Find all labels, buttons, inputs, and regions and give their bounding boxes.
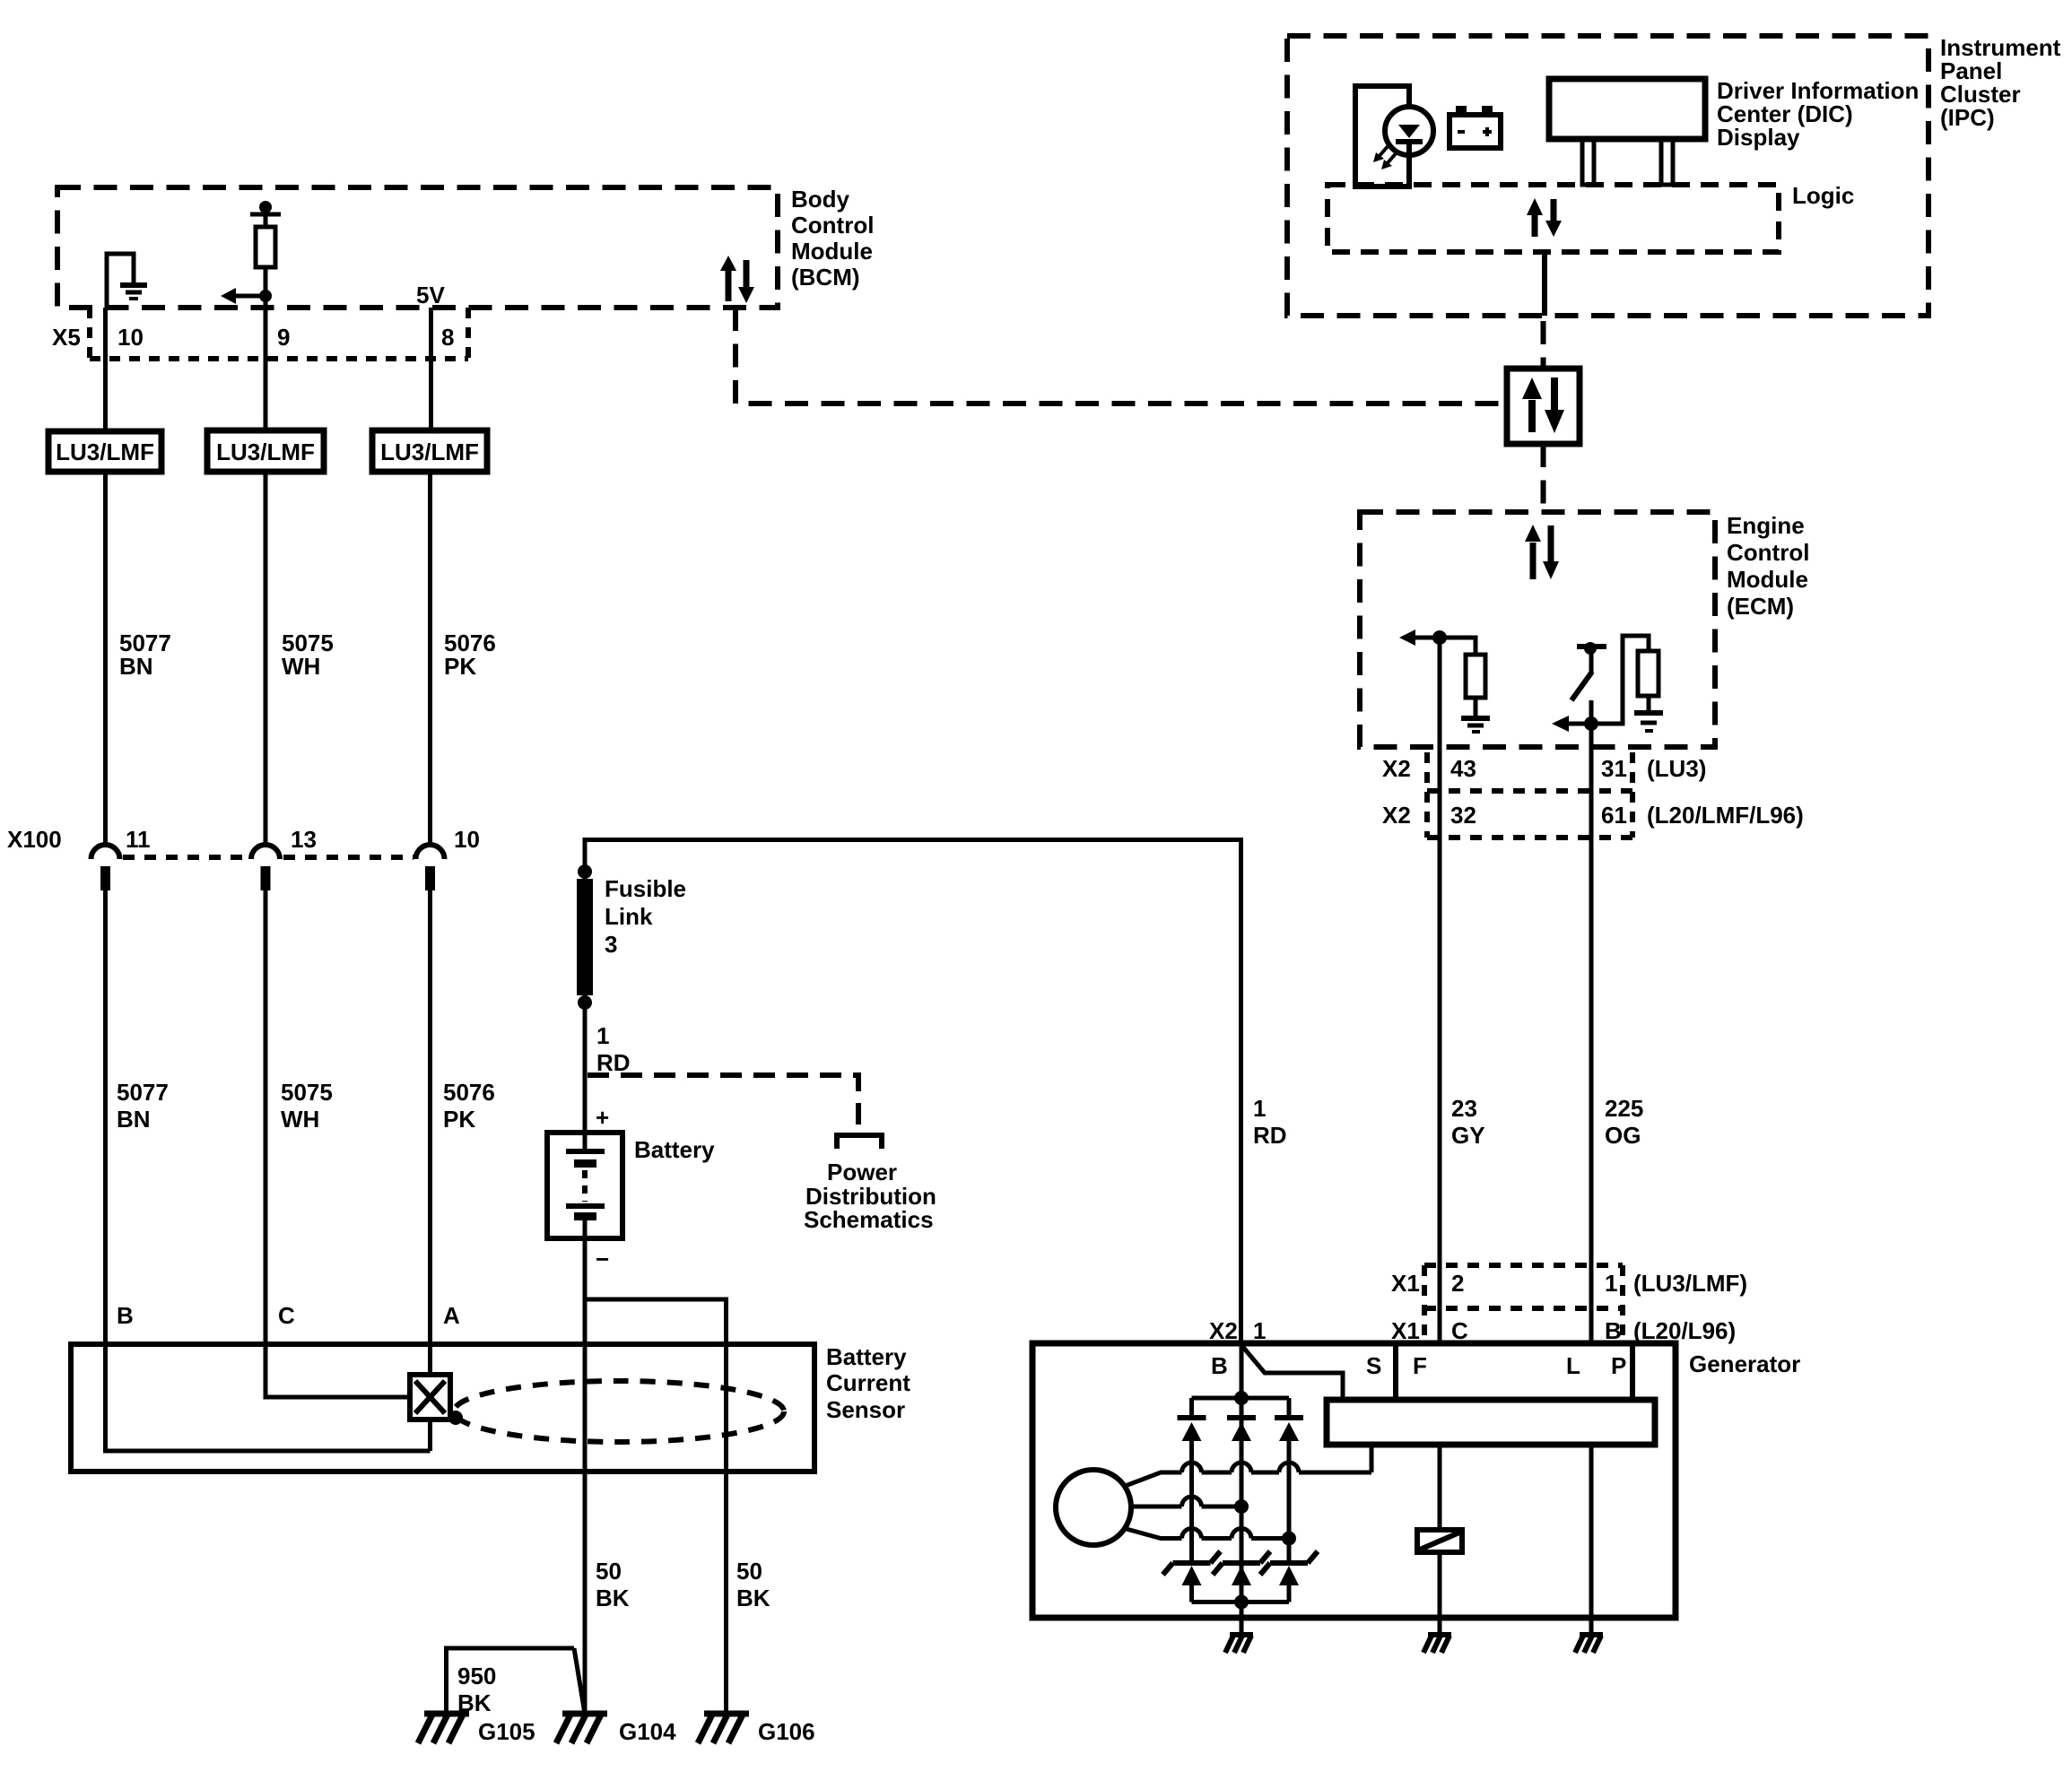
svg-text:31: 31: [1601, 755, 1627, 782]
wire 5076 PK lower: [428, 890, 432, 1344]
svg-text:1: 1: [1605, 1270, 1617, 1297]
svg-text:F: F: [1413, 1352, 1427, 1379]
power distribution tap (dashed): [588, 1075, 882, 1149]
label 5076 PK lower: [443, 1079, 495, 1133]
svg-text:WH: WH: [282, 653, 320, 680]
svg-text:RD: RD: [596, 1049, 631, 1076]
diode D2 (upper middle): [1227, 1418, 1256, 1441]
generator ground 1 (B): [1225, 1619, 1253, 1653]
svg-text:Battery: Battery: [826, 1343, 907, 1370]
battery current sensor box: [71, 1344, 814, 1472]
wire 5077 BN upper: [103, 472, 108, 845]
label DIC: [1717, 77, 1919, 151]
label 950 BK: [457, 1663, 496, 1716]
svg-text:50: 50: [736, 1558, 762, 1585]
zener Z2 (lower middle): [1213, 1551, 1270, 1585]
serial data wire box to ECM (dashed): [1541, 444, 1546, 512]
ECM serial arrows: [1525, 525, 1559, 579]
sensor internal wire C: [266, 1344, 410, 1397]
svg-text:(IPC): (IPC): [1940, 104, 1995, 131]
svg-text:S: S: [1366, 1352, 1381, 1379]
label 5076 PK: [444, 630, 496, 680]
svg-text:X2: X2: [1382, 802, 1411, 829]
battery: [547, 1133, 622, 1238]
svg-text:10: 10: [454, 826, 480, 853]
label IPC: [1940, 34, 2061, 131]
svg-text:50: 50: [596, 1558, 622, 1585]
svg-text:BK: BK: [736, 1585, 770, 1611]
rotor: [1056, 1470, 1131, 1545]
svg-text:+: +: [596, 1104, 609, 1131]
svg-text:5076: 5076: [443, 1079, 495, 1106]
generator ground 3 (L): [1575, 1618, 1603, 1653]
svg-text:2: 2: [1451, 1270, 1464, 1297]
svg-text:(ECM): (ECM): [1727, 593, 1794, 620]
wire 5076 PK upper: [428, 472, 432, 845]
svg-text:Power: Power: [827, 1159, 897, 1185]
svg-text:PK: PK: [444, 653, 476, 680]
svg-text:−: −: [596, 1246, 609, 1272]
svg-text:Module: Module: [791, 238, 873, 265]
label 5075 WH lower: [281, 1079, 333, 1133]
zener Z1 (lower left): [1163, 1551, 1221, 1602]
wire B to regulator (step): [1241, 1345, 1343, 1400]
svg-text:(LU3): (LU3): [1647, 755, 1706, 782]
svg-text:L: L: [1566, 1352, 1580, 1379]
svg-text:P: P: [1611, 1352, 1626, 1379]
label Battery Current Sensor: [826, 1343, 910, 1423]
svg-text:Schematics: Schematics: [804, 1206, 934, 1233]
svg-text:225: 225: [1605, 1095, 1643, 1122]
wire 5075 WH lower: [264, 890, 268, 1344]
wire 950 BK: [447, 1648, 586, 1714]
connector X1 row 1: [1391, 1265, 1747, 1344]
svg-text:Generator: Generator: [1689, 1350, 1800, 1377]
connector X100: [7, 826, 480, 890]
wire 5075 WH upper: [264, 472, 268, 845]
wire 5077 BN lower: [103, 890, 108, 1344]
svg-text:Battery: Battery: [634, 1136, 715, 1163]
resistor (BCM pin 9 internal): [221, 201, 281, 308]
label Power Distribution Schematics: [804, 1159, 936, 1233]
svg-text:9: 9: [277, 324, 290, 351]
svg-text:G106: G106: [758, 1718, 815, 1745]
label 225 OG: [1605, 1095, 1643, 1149]
label ECM: [1727, 512, 1809, 620]
wire 23 GY: [1438, 747, 1442, 1344]
ground (BCM pin 10 internal): [107, 254, 147, 308]
wire pin8: [429, 308, 433, 430]
svg-text:Module: Module: [1727, 566, 1808, 593]
svg-text:5V: 5V: [416, 282, 445, 308]
svg-text:Control: Control: [1727, 539, 1809, 566]
wire pin10: [103, 308, 108, 431]
svg-text:1: 1: [1253, 1095, 1266, 1122]
ECM pin 43 circuit: signal arrow: [1399, 630, 1447, 747]
svg-text:5077: 5077: [117, 1079, 169, 1106]
svg-text:GY: GY: [1451, 1122, 1485, 1149]
svg-text:BN: BN: [117, 1106, 151, 1133]
fusible link 3: [577, 864, 593, 1133]
sensor internal wire B: [106, 1344, 431, 1451]
label BCM: [791, 186, 874, 291]
svg-text:LU3/LMF: LU3/LMF: [216, 438, 315, 465]
ECM ground 2: [1634, 713, 1663, 731]
diode D1 (upper left): [1178, 1418, 1206, 1563]
stator winding row 3: [1123, 1528, 1296, 1546]
stator winding row 1: [1123, 1445, 1371, 1487]
wire L below regulator: [1589, 1445, 1594, 1618]
connector X1 row 2: [1391, 1317, 1736, 1344]
ECM pin 31 signal arrow: [1552, 716, 1598, 747]
serial data arrows (BCM): [720, 256, 754, 303]
svg-text:LU3/LMF: LU3/LMF: [380, 438, 479, 465]
svg-text:Body: Body: [791, 186, 850, 213]
splice pack LU3/LMF 2: [207, 430, 324, 472]
module box BCM: [57, 187, 778, 308]
generator box: [1032, 1343, 1676, 1618]
branch wire to G106: [587, 1299, 727, 1714]
label 1 RD: [596, 1022, 631, 1076]
ground G104: [556, 1714, 676, 1745]
svg-text:11: 11: [126, 826, 151, 853]
svg-text:Link: Link: [605, 903, 653, 930]
svg-text:32: 32: [1450, 802, 1476, 829]
svg-text:(LU3/LMF): (LU3/LMF): [1633, 1270, 1747, 1297]
svg-text:13: 13: [291, 826, 317, 853]
module box ECM: [1360, 512, 1715, 747]
logic arrows: [1527, 198, 1562, 237]
field coil: [1417, 1530, 1462, 1552]
svg-text:X1: X1: [1391, 1270, 1420, 1297]
svg-text:Logic: Logic: [1792, 182, 1854, 209]
ground G106: [698, 1714, 815, 1745]
pin S stub: [1393, 1343, 1398, 1400]
svg-text:23: 23: [1451, 1095, 1477, 1122]
svg-text:G104: G104: [619, 1718, 676, 1745]
svg-text:OG: OG: [1605, 1122, 1641, 1149]
diode bridge bottom bus: [1192, 1595, 1290, 1610]
svg-text:Current: Current: [826, 1369, 910, 1396]
battery negative wire to G104: [583, 1238, 588, 1714]
label 5077 BN lower: [117, 1079, 169, 1133]
ECM pin 31 circuit: switch: [1571, 642, 1606, 724]
svg-text:B: B: [117, 1302, 134, 1329]
wire logic to IPC edge: [1542, 252, 1547, 316]
svg-text:10: 10: [118, 324, 144, 351]
svg-text:BN: BN: [119, 653, 153, 680]
svg-text:61: 61: [1601, 802, 1627, 829]
svg-text:8: 8: [441, 324, 454, 351]
wire B main: [1240, 1344, 1244, 1619]
label 5077 BN: [119, 630, 171, 680]
sensor element (X box): [410, 1375, 450, 1420]
splice pack LU3/LMF 1: [48, 431, 161, 472]
label 5075 WH: [282, 630, 334, 680]
svg-text:PK: PK: [443, 1106, 475, 1133]
wire pin9: [264, 308, 268, 430]
voltage regulator: [1327, 1400, 1655, 1445]
svg-text:C: C: [278, 1302, 295, 1329]
connector X2 rows: [1382, 752, 1804, 838]
label 23 GY: [1451, 1095, 1485, 1149]
svg-text:X5: X5: [52, 324, 81, 351]
stator winding row 2: [1130, 1497, 1249, 1514]
wire 225 OG: [1589, 747, 1594, 1344]
svg-text:BK: BK: [596, 1585, 630, 1611]
telltale indicator (LED): [1355, 86, 1433, 187]
svg-text:Engine: Engine: [1727, 512, 1805, 539]
label 50 BK (G104 wire): [596, 1558, 630, 1611]
svg-text:1: 1: [596, 1022, 609, 1049]
svg-text:LU3/LMF: LU3/LMF: [56, 438, 154, 465]
svg-text:43: 43: [1450, 755, 1476, 782]
pin P stub: [1630, 1343, 1635, 1400]
diode D3 (upper right): [1275, 1418, 1303, 1563]
sensor internal wire A: [428, 1344, 432, 1375]
svg-text:B: B: [1211, 1352, 1228, 1379]
svg-text:5075: 5075: [281, 1079, 333, 1106]
serial data link box: [1507, 369, 1580, 444]
svg-text:(BCM): (BCM): [791, 264, 860, 291]
svg-text:Control: Control: [791, 212, 874, 239]
zener Z3 (lower right): [1260, 1551, 1318, 1602]
label Fusible Link 3: [605, 875, 686, 958]
svg-text:(L20/LMF/L96): (L20/LMF/L96): [1647, 802, 1804, 829]
label 1 RD (generator feed): [1253, 1095, 1287, 1149]
svg-text:Display: Display: [1717, 124, 1800, 151]
serial data wire IPC to box (dashed): [1541, 321, 1546, 369]
connector X2 pin 1 (generator): [1209, 1317, 1266, 1344]
generator ground 2 (F): [1423, 1618, 1451, 1653]
battery telltale icon: [1450, 106, 1501, 148]
ground G105: [418, 1714, 535, 1745]
svg-text:3: 3: [605, 931, 617, 958]
logic box: [1328, 185, 1779, 252]
ECM resistor R1: [1440, 638, 1485, 718]
serial data wire (BCM to data box, dashed): [736, 308, 1507, 404]
ECM ground 1: [1461, 718, 1490, 732]
svg-text:950: 950: [457, 1663, 496, 1689]
svg-text:RD: RD: [1253, 1122, 1287, 1149]
DIC display: [1549, 79, 1705, 185]
ECM resistor R2: [1591, 636, 1658, 724]
svg-text:WH: WH: [281, 1106, 319, 1133]
svg-text:X100: X100: [7, 826, 62, 853]
sensor coil (dashed ellipse): [448, 1381, 784, 1442]
svg-text:G105: G105: [478, 1718, 535, 1745]
svg-text:A: A: [443, 1302, 460, 1329]
module box IPC: [1287, 36, 1928, 316]
svg-text:Sensor: Sensor: [826, 1396, 905, 1423]
wire 1 RD top horizontal: [585, 840, 1241, 1345]
diode bridge top bus: [1192, 1391, 1290, 1418]
svg-text:X2: X2: [1382, 755, 1411, 782]
label 50 BK (G106 wire): [736, 1558, 770, 1611]
wire F (regulator to field): [1438, 1445, 1442, 1530]
svg-text:Fusible: Fusible: [605, 875, 686, 902]
splice pack LU3/LMF 3: [372, 430, 487, 472]
connector X5: [52, 308, 468, 359]
